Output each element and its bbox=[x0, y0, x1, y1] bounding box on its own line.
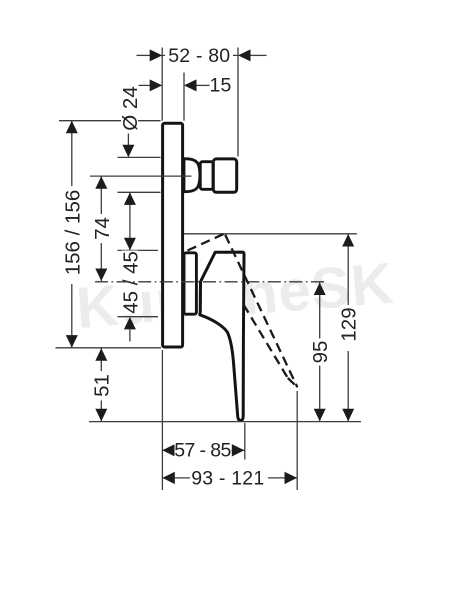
plate bottom extension line bbox=[56, 347, 162, 349]
15 right extension line bbox=[183, 73, 185, 121]
dimension 45/45 bbox=[120, 192, 143, 341]
52-80 right extension line bbox=[237, 48, 239, 157]
93-121 right extension line bbox=[296, 391, 298, 490]
diverter knob dome bbox=[184, 159, 200, 192]
lever handle (solid position) bbox=[200, 252, 244, 420]
wall plane extension line top bbox=[161, 48, 163, 121]
plate (escutcheon) bbox=[163, 123, 183, 347]
dimension 51 bbox=[91, 348, 114, 421]
dimension 93-121 bbox=[162, 467, 297, 489]
handle axis centerline (dash-dot) bbox=[95, 281, 324, 283]
handle top reference line (129 top) bbox=[184, 233, 357, 235]
knob bottom extension line bbox=[118, 191, 161, 193]
diverter knob head bbox=[213, 159, 236, 192]
sleeve top extension line bbox=[118, 249, 159, 251]
svg-text:74: 74 bbox=[91, 217, 114, 240]
svg-text:95: 95 bbox=[309, 341, 332, 364]
bottom reference line bbox=[89, 421, 361, 423]
sleeve bottom extension line bbox=[118, 316, 159, 318]
svg-text:93 - 121: 93 - 121 bbox=[191, 467, 264, 489]
dimension Ø24 bbox=[119, 85, 142, 158]
svg-text:57 - 85: 57 - 85 bbox=[174, 440, 231, 462]
dimension 52-80 bbox=[137, 45, 267, 67]
57-85 right extension line bbox=[244, 423, 246, 460]
dimension 95 bbox=[309, 283, 332, 422]
svg-text:Ø 24: Ø 24 bbox=[119, 86, 142, 130]
diverter knob stem bbox=[200, 162, 213, 190]
knob axis line bbox=[90, 175, 192, 177]
dimension 129 bbox=[337, 234, 360, 421]
plate top extension line bbox=[59, 120, 161, 122]
dimension 156/156 bbox=[61, 121, 84, 348]
svg-text:129: 129 bbox=[337, 307, 360, 341]
svg-text:15: 15 bbox=[209, 75, 231, 97]
dashed handle back edge (rotated position) bbox=[244, 305, 288, 379]
dashed handle tip (rotated position) bbox=[288, 378, 298, 387]
dashed handle top edge (rotated position) bbox=[188, 234, 224, 251]
dimension 74 bbox=[91, 176, 114, 281]
dashed handle front edge (rotated position) bbox=[225, 235, 297, 387]
knob top extension line bbox=[118, 156, 161, 158]
dimension 15 bbox=[139, 75, 232, 97]
svg-text:51: 51 bbox=[91, 374, 114, 397]
svg-text:52 - 80: 52 - 80 bbox=[168, 45, 230, 67]
cartridge sleeve bbox=[184, 253, 196, 314]
svg-text:156 / 156: 156 / 156 bbox=[61, 190, 84, 276]
wall extension line bottom bbox=[161, 350, 163, 490]
dimension 57-85 bbox=[162, 440, 244, 462]
